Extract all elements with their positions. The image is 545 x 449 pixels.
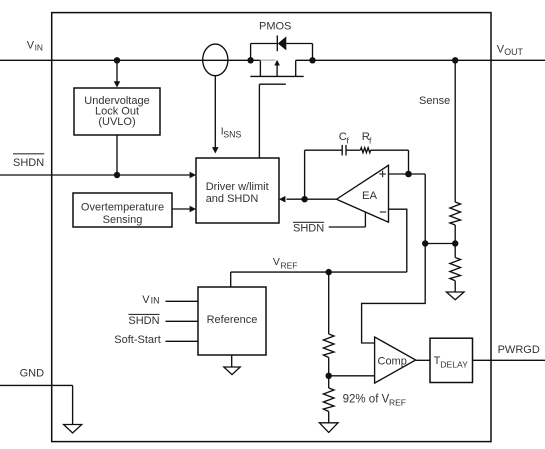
svg-text:REF: REF — [389, 398, 406, 408]
svg-text:Sense: Sense — [419, 95, 450, 107]
svg-text:SHDN: SHDN — [128, 315, 159, 327]
svg-text:SHDN: SHDN — [293, 223, 324, 235]
svg-text:IN: IN — [151, 296, 160, 306]
svg-text:Sensing: Sensing — [103, 214, 143, 226]
svg-text:Driver w/limit: Driver w/limit — [206, 181, 269, 193]
svg-text:V: V — [142, 294, 150, 306]
svg-text:PWRGD: PWRGD — [498, 344, 540, 356]
svg-text:OUT: OUT — [504, 47, 523, 57]
svg-text:SNS: SNS — [223, 130, 241, 140]
svg-text:V: V — [273, 256, 280, 268]
svg-text:92% of V: 92% of V — [343, 393, 390, 405]
svg-text:and SHDN: and SHDN — [206, 193, 259, 205]
svg-text:DELAY: DELAY — [440, 359, 468, 369]
svg-text:REF: REF — [281, 261, 298, 271]
svg-text:Reference: Reference — [207, 314, 258, 326]
svg-text:V: V — [27, 39, 35, 51]
svg-text:SHDN: SHDN — [13, 157, 44, 169]
svg-text:EA: EA — [362, 190, 378, 202]
svg-text:(UVLO): (UVLO) — [98, 116, 135, 128]
svg-text:GND: GND — [20, 368, 44, 380]
svg-text:PMOS: PMOS — [259, 20, 291, 32]
svg-text:Overtemperature: Overtemperature — [81, 201, 164, 213]
svg-text:IN: IN — [35, 42, 43, 52]
svg-text:Soft-Start: Soft-Start — [114, 334, 160, 346]
svg-text:Comp: Comp — [378, 355, 407, 367]
